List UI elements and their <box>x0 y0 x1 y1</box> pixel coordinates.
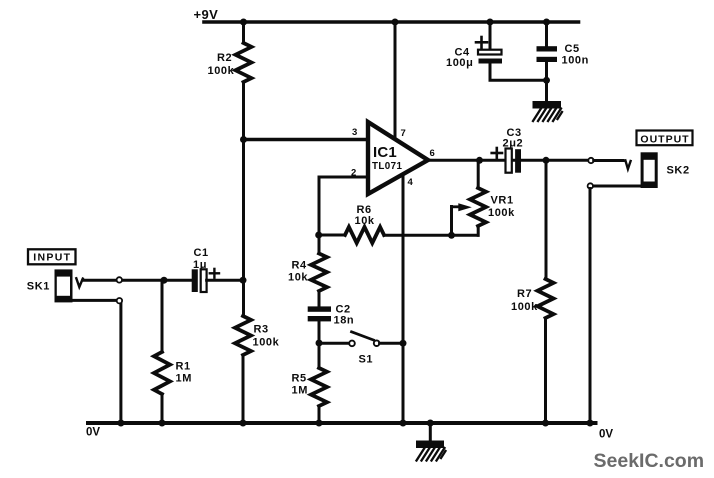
ground symbol top right <box>533 101 563 121</box>
node pin4 at 0V rail <box>400 420 407 427</box>
SK2 sleeve contact circle <box>588 183 593 188</box>
node R5 at 0V rail <box>316 420 323 427</box>
wire R4 top lead <box>318 235 321 254</box>
SK1 sleeve contact circle <box>117 298 122 303</box>
node R3 at 0V rail <box>240 420 247 427</box>
capacitor C5 plate bottom <box>537 57 558 62</box>
C4 plus sign <box>476 37 487 48</box>
node ground at 0V rail <box>427 420 434 427</box>
wire R2 top lead <box>242 22 245 43</box>
wire C4 bottom elbow <box>490 64 547 81</box>
label C4 100u <box>446 47 473 70</box>
SK2 tip contact hook <box>625 160 630 169</box>
svg-text:R5: R5 <box>292 373 307 385</box>
wire C4 top lead <box>489 22 492 50</box>
wire SK2 sleeve down to 0V <box>589 189 592 424</box>
svg-text:10k: 10k <box>355 215 375 227</box>
node SK2 sleeve at 0V rail <box>587 420 594 427</box>
SK1 tip contact hook <box>76 278 83 287</box>
C1 plus sign <box>210 269 219 278</box>
ground stub bottom <box>429 423 432 441</box>
wire VR1 bottom lead <box>477 226 480 235</box>
label C3 2u2 <box>503 127 524 150</box>
node R7 top junction <box>543 157 550 164</box>
wire S1 to ground line <box>380 342 403 345</box>
node SK1 sleeve at 0V rail <box>117 420 124 427</box>
svg-text:R7: R7 <box>517 288 532 300</box>
wire SK2 sleeve horizontal <box>593 185 641 188</box>
node C4 at +9V rail <box>487 19 494 26</box>
svg-text:+9V: +9V <box>194 7 219 22</box>
svg-text:S1: S1 <box>359 354 374 366</box>
label R5 1M <box>292 373 308 397</box>
capacitor C5 plate top <box>537 46 558 51</box>
wire SK1 tip to C1 <box>83 279 192 282</box>
svg-text:7: 7 <box>401 128 406 139</box>
capacitor C2 plate top <box>308 306 331 311</box>
wire pin 4 down to 0V <box>402 172 405 423</box>
resistor R2 <box>236 43 252 82</box>
resistor R1 <box>154 352 170 394</box>
op-amp IC1 triangle <box>368 122 428 194</box>
VR1 wiper arrow <box>452 203 472 211</box>
svg-text:VR1: VR1 <box>491 195 514 207</box>
svg-text:C5: C5 <box>565 43 580 55</box>
capacitor C2 plate bottom <box>308 316 331 321</box>
svg-text:C1: C1 <box>194 247 209 259</box>
svg-text:R4: R4 <box>292 260 308 272</box>
label R6 10k <box>355 204 375 227</box>
node S1 at pin4 line <box>400 340 407 347</box>
resistor R6 <box>345 227 384 243</box>
svg-text:R1: R1 <box>176 361 191 373</box>
capacitor C1 plate positive <box>201 269 207 292</box>
potentiometer VR1 <box>470 188 486 226</box>
resistor R5 <box>311 368 327 406</box>
wire R4 to C2 <box>318 291 321 306</box>
label VR1 100k <box>488 195 515 219</box>
node VR1 top junction <box>476 157 483 164</box>
svg-text:4: 4 <box>408 177 414 188</box>
wire C5 to ground <box>545 62 548 101</box>
wire SK1 sleeve down to 0V <box>119 303 122 423</box>
node VR1 wiper junction <box>448 232 455 239</box>
wire to pin 3 <box>244 138 369 141</box>
svg-text:2μ2: 2μ2 <box>503 138 524 150</box>
node C2 R5 S1 junction <box>316 340 323 347</box>
wire to S1 left contact <box>319 342 349 345</box>
svg-text:3: 3 <box>352 127 357 138</box>
label R1 1M <box>176 361 192 385</box>
svg-text:0V: 0V <box>599 429 613 441</box>
svg-text:SK2: SK2 <box>667 165 690 177</box>
node feedback junction R6 R4 <box>315 232 322 239</box>
node R1 top junction <box>161 277 168 284</box>
svg-text:100k: 100k <box>208 65 235 77</box>
node C1 output junction <box>240 277 247 284</box>
wire R6 to VR1 wiper feedback <box>384 234 478 237</box>
wire C2 to S1 node <box>318 321 321 343</box>
capacitor C1 plate negative <box>192 269 198 292</box>
wire to SK2 tip <box>594 159 623 162</box>
label R2 100k <box>208 52 235 77</box>
svg-text:100k: 100k <box>488 207 515 219</box>
wire SK1 sleeve horizontal <box>73 299 118 302</box>
node C4 C5 ground junction <box>543 77 550 84</box>
wire R7 bottom lead <box>544 318 547 423</box>
node R1 at 0V rail <box>159 420 166 427</box>
node R7 at 0V rail <box>542 420 549 427</box>
wire pin 7 supply <box>394 22 397 142</box>
svg-text:INPUT: INPUT <box>33 252 71 264</box>
svg-text:100k: 100k <box>253 337 280 349</box>
svg-text:1M: 1M <box>176 373 192 385</box>
svg-text:R2: R2 <box>217 52 232 64</box>
label C1 1u <box>193 247 209 271</box>
SK1 tip contact circle <box>117 277 122 282</box>
svg-text:100k: 100k <box>511 301 538 313</box>
switch S1 left contact <box>349 341 355 347</box>
svg-text:6: 6 <box>430 148 435 159</box>
VR1 wiper riser <box>450 207 453 236</box>
capacitor C3 plate positive <box>506 149 512 173</box>
wire R1 lead <box>161 280 164 352</box>
jack SK2 <box>641 152 658 188</box>
svg-text:100μ: 100μ <box>446 57 473 69</box>
wire R7 top lead <box>545 160 548 279</box>
label R3 100k <box>253 324 280 349</box>
svg-text:IC1: IC1 <box>373 144 397 161</box>
node pin3 bias junction <box>240 136 247 143</box>
capacitor C3 plate negative <box>515 149 521 173</box>
C3 plus sign <box>492 148 502 158</box>
INPUT label box <box>28 249 76 264</box>
resistor R3 <box>235 316 251 355</box>
svg-text:SK1: SK1 <box>27 280 50 292</box>
OUTPUT label box <box>637 131 693 146</box>
label R7 100k <box>511 288 538 313</box>
+9V supply rail <box>204 20 579 24</box>
resistor R4 <box>311 254 327 292</box>
switch S1 lever <box>352 332 374 340</box>
wire R5 bottom lead <box>318 406 321 423</box>
svg-text:100n: 100n <box>562 55 589 67</box>
wire R5 top lead <box>318 343 321 368</box>
svg-text:18n: 18n <box>334 315 355 327</box>
wire R3 bottom lead <box>242 355 245 423</box>
svg-text:1μ: 1μ <box>193 259 207 271</box>
svg-text:10k: 10k <box>288 272 308 284</box>
svg-text:0V: 0V <box>86 426 100 438</box>
capacitor C4 plate positive <box>478 50 502 55</box>
wire R6 left lead <box>319 234 345 237</box>
0V rail bottom <box>88 421 596 425</box>
wire pin 2 down to feedback node <box>318 177 321 235</box>
wire R2 bottom to node column <box>242 82 245 316</box>
svg-text:OUTPUT: OUTPUT <box>640 133 689 145</box>
label R4 10k <box>288 260 308 284</box>
jack SK1 <box>55 269 73 302</box>
wire C5 top lead <box>545 22 548 46</box>
wire R1 bottom lead <box>161 394 164 423</box>
svg-text:R3: R3 <box>254 324 269 336</box>
SK2 output contact circle <box>588 158 593 163</box>
wire pin 2 horizontal <box>319 176 368 179</box>
label C5 100n <box>562 43 589 67</box>
switch S1 right contact <box>374 340 380 346</box>
resistor R7 <box>538 279 554 318</box>
label C2 18n <box>334 304 355 327</box>
svg-text:TL071: TL071 <box>372 161 402 172</box>
wire op-amp output <box>428 159 589 162</box>
wire VR1 top lead <box>477 160 480 188</box>
node C5 at +9V rail <box>543 19 550 26</box>
node R2 at +9V rail <box>240 19 247 26</box>
ground symbol bottom <box>416 441 446 461</box>
capacitor C4 plate negative <box>479 59 503 64</box>
svg-text:SeekIC.com: SeekIC.com <box>594 450 705 472</box>
wire C1 to bias node <box>207 279 243 282</box>
node pin7 at +9V rail <box>392 19 399 26</box>
svg-text:1M: 1M <box>292 385 308 397</box>
